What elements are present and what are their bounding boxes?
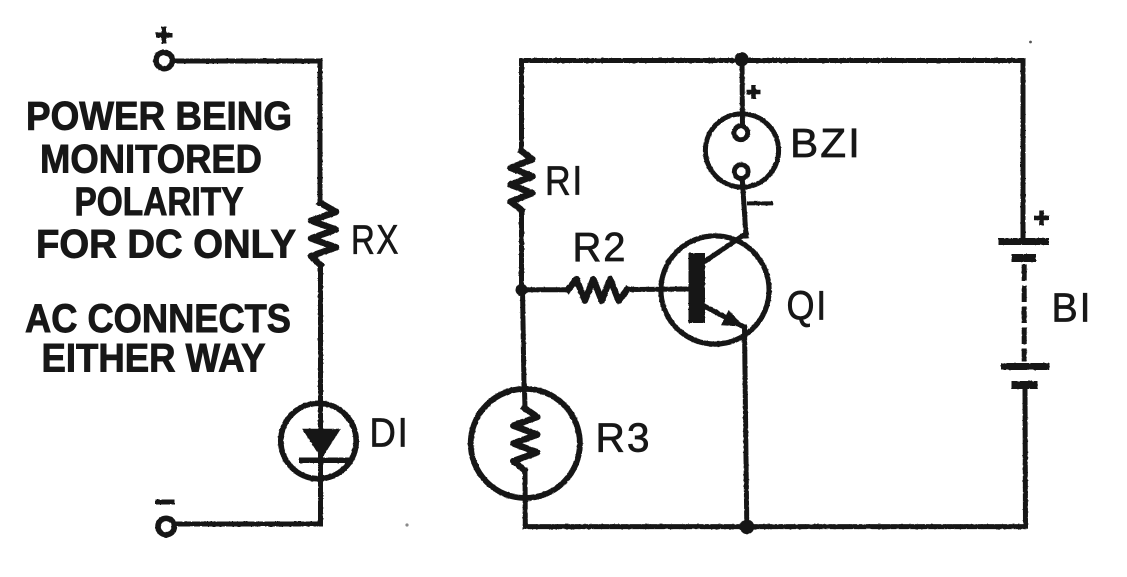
bottom rail wire: [525, 524, 1025, 529]
svg-text:POWER BEING: POWER BEING: [26, 95, 292, 139]
wire battery to bottom rail: [1023, 389, 1029, 527]
resistor R1: [511, 151, 533, 210]
resistor R2: [568, 279, 627, 301]
LED indicator D1 circle: [281, 403, 356, 478]
wire top rail down to R1: [519, 61, 524, 152]
wire through D1: [318, 400, 323, 524]
battery B1 bottom short plate: [1012, 381, 1038, 389]
terminal + (top left input): [156, 52, 172, 68]
node: top rail / BZ1 junction: [734, 52, 748, 66]
resistor RX: [311, 203, 336, 265]
speck artifact near bottom gap: [405, 523, 408, 526]
node: R1/R2/R3 junction: [516, 284, 528, 296]
battery B1 bottom long plate: [1001, 363, 1050, 370]
speck artifact top right: [1029, 41, 1032, 44]
Q1 collector stroke: [703, 234, 747, 264]
wire through R3: [522, 386, 528, 408]
wire R3 to bottom rail: [523, 470, 528, 527]
svg-text:R3: R3: [596, 415, 652, 461]
svg-text:EITHER WAY: EITHER WAY: [42, 337, 266, 381]
wire BZ1 to Q1 collector: [742, 180, 746, 236]
note text: ac connects either way: [25, 297, 291, 381]
battery B1 dashed middle: [1022, 267, 1027, 359]
BZ1 top pin circle: [734, 126, 748, 140]
battery B1 top short plate: [1012, 254, 1037, 262]
wire RX to D1: [318, 265, 323, 400]
svg-text:AC CONNECTS: AC CONNECTS: [25, 297, 291, 341]
svg-text:FOR DC ONLY: FOR DC ONLY: [36, 222, 296, 266]
svg-text:BI: BI: [1052, 285, 1093, 331]
node: emitter / bottom rail junction: [740, 520, 755, 535]
wire node down to R3: [523, 290, 525, 386]
wire top-left terminal to RX branch: [174, 61, 320, 203]
minus sign of bottom-left terminal: [155, 500, 175, 505]
right rail wire down to battery: [1021, 61, 1026, 242]
photoresistor R3 circle: [471, 389, 580, 498]
svg-text:R2: R2: [573, 224, 628, 270]
Q1 base bar: [689, 253, 706, 323]
battery B1 top long plate: [999, 238, 1050, 245]
wire R1 to base node: [519, 210, 524, 290]
wire D1 to bottom-left terminal: [176, 522, 321, 527]
minus sign at BZ1: [747, 201, 773, 205]
Q1 emitter stroke: [705, 307, 741, 326]
svg-text:MONITORED: MONITORED: [40, 138, 262, 182]
Q1 emitter arrowhead: [721, 310, 744, 327]
svg-text:BZI: BZI: [790, 120, 862, 166]
svg-text:RX: RX: [351, 217, 400, 263]
plus sign at BZ1: [747, 85, 761, 99]
svg-text:DI: DI: [370, 410, 410, 456]
resistor R3 zigzag: [513, 408, 537, 470]
terminal - (bottom left input): [158, 518, 174, 534]
top rail wire: [522, 58, 1024, 63]
wire top junction down to buzzer BZ1: [740, 61, 746, 127]
plus sign at battery B1: [1034, 211, 1049, 226]
transistor Q1 circle: [661, 236, 769, 344]
wire emitter down to bottom rail: [745, 327, 747, 527]
plus sign of top-left terminal: [156, 27, 173, 44]
diode D1 triangle (anode): [304, 430, 340, 458]
note text: power being monitored: [26, 95, 296, 267]
wire R2 to Q1 base: [627, 287, 689, 293]
buzzer BZ1 circle: [705, 114, 778, 187]
svg-text:QI: QI: [787, 283, 829, 329]
wire node to R2: [522, 287, 569, 292]
svg-text:RI: RI: [545, 158, 584, 204]
svg-text:POLARITY: POLARITY: [75, 180, 244, 224]
diode D1 cathode bar: [299, 458, 350, 464]
BZ1 bottom pin circle: [734, 165, 748, 179]
